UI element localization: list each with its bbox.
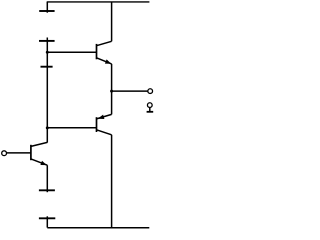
power supply bar (top tap) <box>39 10 54 12</box>
wire: Q3 collector down right side <box>111 135 113 228</box>
wire: Q2 emitter down to output node and Q3 emitter <box>111 64 113 115</box>
wire: stub from top rail down to supply bar <box>46 2 48 13</box>
wire: base wire to Q2 <box>47 51 96 53</box>
wire: Q1 emitter down to supply bar <box>46 165 48 192</box>
ground bar <box>147 111 154 113</box>
terminal: input circle <box>2 151 7 156</box>
transistor Q3 (PNP, middle right) <box>97 114 112 134</box>
node: junction dot at output <box>110 90 113 93</box>
wire: Q2 collector up to top rail <box>111 2 113 41</box>
terminal: output circle (-) <box>147 103 152 108</box>
transistor Q2 (NPN, top right) <box>97 41 112 64</box>
wire: bottom horizontal <box>47 227 149 229</box>
node: junction dot at Q2 base wire <box>46 51 49 54</box>
power supply bar (top of left rail) <box>39 40 55 42</box>
wire: left vertical rail <box>46 38 48 143</box>
wire: stub from bottom wire up to supply bar <box>46 216 48 227</box>
power supply bar (crossing left rail) <box>41 66 53 68</box>
terminal: output circle (+) <box>148 89 153 94</box>
power supply bar (below Q1 emitter) <box>39 189 55 191</box>
wire: base wire to Q3 <box>47 127 96 129</box>
wire: stub from output (-) terminal to ground <box>149 107 151 111</box>
wire: positive supply rail (top horizontal) <box>47 1 150 3</box>
wire: output wire to terminal <box>112 90 148 92</box>
wire: input base wire to Q1 <box>7 152 31 154</box>
transistor Q1 (NPN, left) <box>31 142 47 165</box>
power supply bar (bottom of left stub) <box>39 217 55 219</box>
node: junction dot at Q3 base wire <box>46 126 49 129</box>
